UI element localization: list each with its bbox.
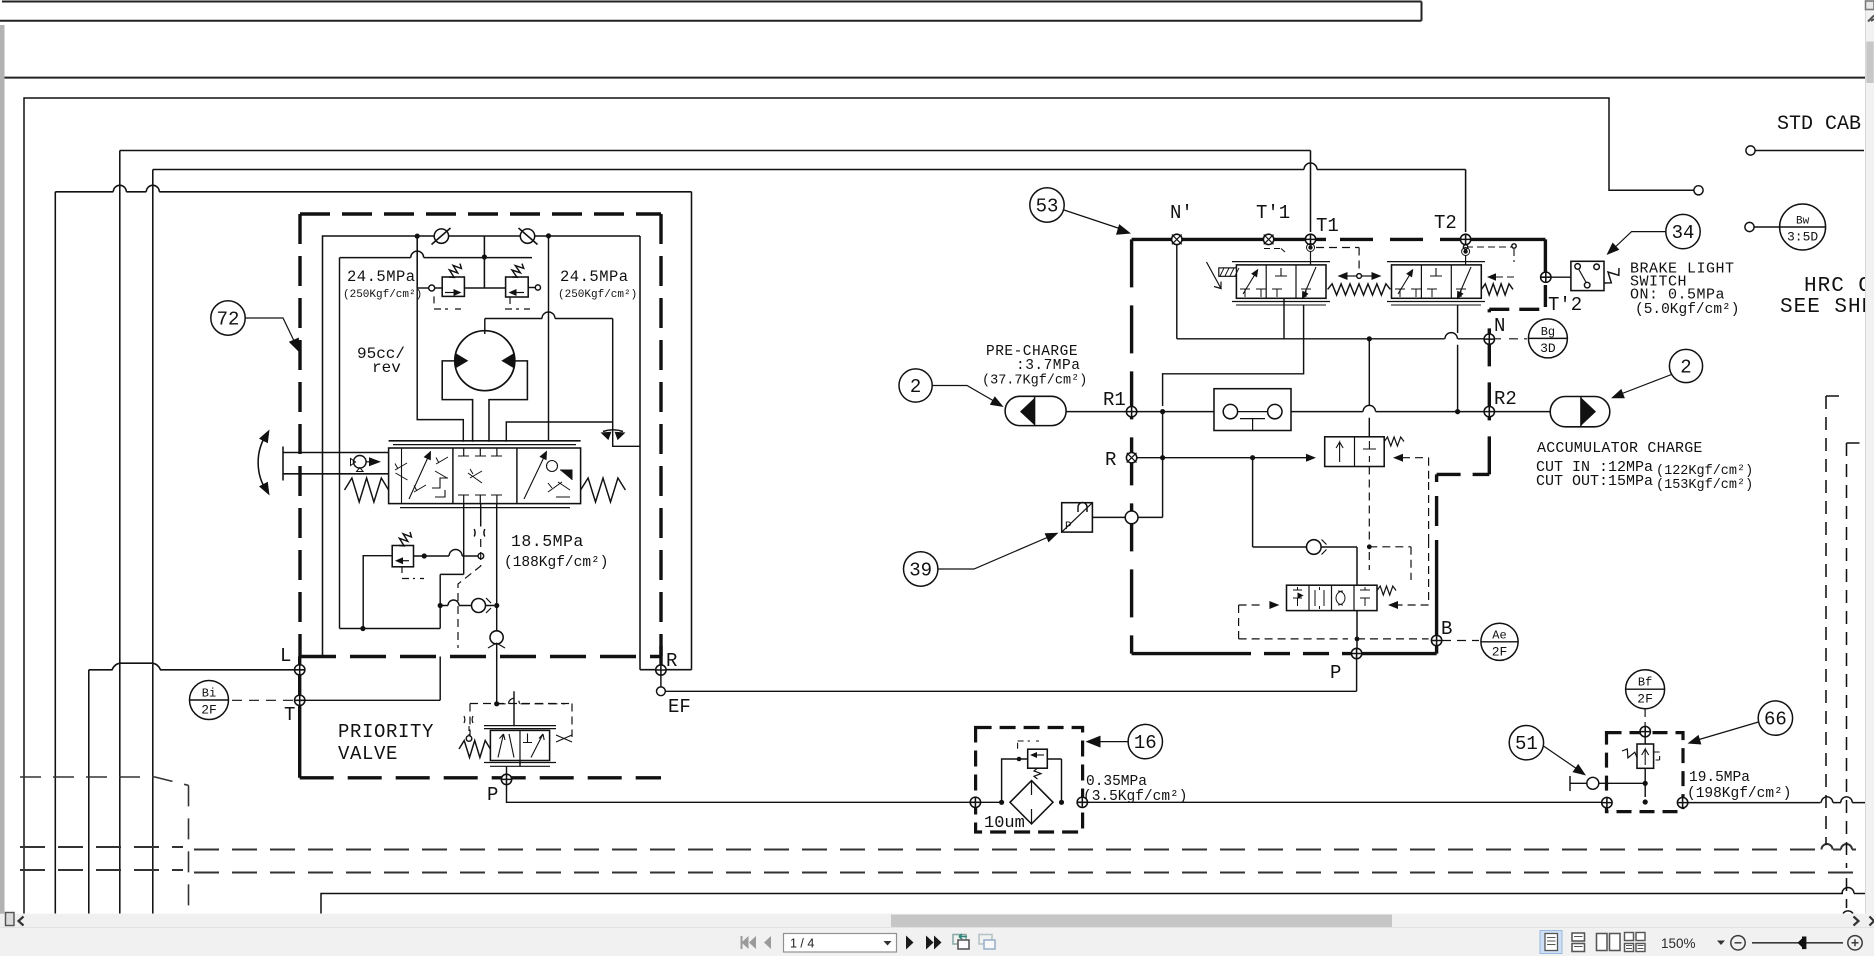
assembly 53 boundary left bold dashed x=1131.6 bbox=[1130, 239, 1133, 653]
wire envelope internal y=257.6 bbox=[340, 251, 533, 257]
wire N' drop bbox=[1176, 245, 1178, 339]
svg-text:R1: R1 bbox=[1103, 389, 1126, 411]
shuttle valve box bbox=[1214, 389, 1291, 431]
toolbar page box bbox=[784, 934, 897, 953]
svg-text::3.7MPa: :3.7MPa bbox=[1016, 358, 1080, 374]
wire T internal bbox=[305, 657, 440, 701]
assembly 53 boundary bottom left bold bbox=[1132, 652, 1225, 655]
toolbar zoom slider bbox=[1752, 942, 1843, 944]
steering valve internal passages bbox=[401, 448, 403, 504]
svg-text:T'2: T'2 bbox=[1548, 294, 1582, 316]
assembly 72 boundary bottom (bold dashed through P) bbox=[300, 776, 661, 779]
port R plug bbox=[1126, 453, 1136, 463]
svg-text:HRC O: HRC O bbox=[1804, 275, 1872, 298]
right vertical scrollbar bbox=[1866, 0, 1874, 914]
wire R1-R gauge link bbox=[1138, 412, 1163, 518]
filter bypass relief bbox=[1028, 749, 1048, 768]
port relief right bbox=[1677, 797, 1687, 807]
svg-text:72: 72 bbox=[217, 309, 240, 331]
priority valve body bbox=[490, 730, 549, 760]
V1 internals bbox=[1243, 271, 1257, 294]
svg-text:2F: 2F bbox=[1492, 644, 1508, 659]
svg-text:2F: 2F bbox=[1637, 692, 1653, 707]
toolbar layout cont-facing bbox=[1625, 933, 1646, 952]
open terminal circle top right bbox=[1694, 186, 1703, 195]
wire vertical bus x=152.8 bbox=[152, 170, 154, 914]
V2 pilot dashed right bbox=[1487, 273, 1496, 281]
svg-text:EF: EF bbox=[668, 696, 691, 718]
node top line junctions bbox=[415, 234, 420, 239]
balloon 53 bbox=[1030, 188, 1064, 222]
V2 internals bbox=[1398, 271, 1412, 294]
port T bbox=[295, 695, 305, 705]
balloon 66 bbox=[1758, 701, 1792, 735]
svg-text:66: 66 bbox=[1764, 709, 1787, 731]
svg-text:2: 2 bbox=[910, 376, 921, 398]
svg-text:Bi: Bi bbox=[202, 687, 216, 701]
accumulator ACC1 bbox=[1005, 396, 1066, 425]
svg-text:L: L bbox=[280, 645, 291, 667]
wire route to T2 with jump over T1 drop bbox=[153, 163, 1466, 232]
svg-text:24.5MPa: 24.5MPa bbox=[347, 268, 416, 286]
filter bypass wires bbox=[1002, 759, 1062, 802]
lower mod valve SV2 body bbox=[1287, 585, 1378, 610]
accumulator ACC2 bbox=[1550, 397, 1610, 427]
inner envelope rectangle bbox=[323, 236, 641, 656]
wire relief cross line bbox=[429, 285, 435, 291]
svg-text:ACCUMULATOR CHARGE: ACCUMULATOR CHARGE bbox=[1537, 440, 1703, 457]
svg-text:(250Kgf/cm²): (250Kgf/cm²) bbox=[343, 289, 422, 301]
port filter in bbox=[970, 797, 980, 807]
svg-text:18.5MPa: 18.5MPa bbox=[511, 532, 584, 551]
SV2 arrows bbox=[1269, 601, 1279, 609]
port L bbox=[295, 665, 305, 675]
svg-text:10um: 10um bbox=[984, 814, 1025, 833]
priority valve orifice left bbox=[464, 716, 473, 723]
port R1 bbox=[1126, 406, 1136, 416]
svg-text:STD CAB: STD CAB bbox=[1777, 113, 1861, 136]
wire L port feed (jumps over bus lines) bbox=[89, 663, 295, 670]
toolbar prev-view icon bbox=[953, 935, 969, 950]
balloon 2 right bbox=[1669, 349, 1702, 382]
assembly 72 boundary L-R port line (bold dashed) bbox=[300, 655, 661, 658]
svg-text:R: R bbox=[666, 650, 677, 672]
svg-text:(37.7Kgf/cm²): (37.7Kgf/cm²) bbox=[982, 374, 1087, 389]
wire EF line to brake P bbox=[665, 659, 1356, 692]
wire pump port right bbox=[506, 422, 612, 442]
svg-text:16: 16 bbox=[1134, 732, 1157, 754]
svg-text:(153Kgf/cm²): (153Kgf/cm²) bbox=[1656, 478, 1753, 493]
priority valve top rails bbox=[484, 725, 556, 727]
port relief top bbox=[1640, 726, 1650, 736]
wire vertical bus x=119.8 bbox=[119, 151, 121, 914]
port P bbox=[501, 774, 511, 784]
svg-text:Bw: Bw bbox=[1796, 216, 1810, 228]
balloon Bw/3:5D bbox=[1780, 204, 1826, 250]
svg-text:T: T bbox=[284, 704, 295, 726]
wire priority valve bottom to P bbox=[507, 761, 521, 775]
filter boundary box (bold dashed) bbox=[976, 728, 1083, 833]
balloon Bi/2F bbox=[190, 681, 229, 720]
svg-text:24.5MPa: 24.5MPa bbox=[560, 268, 629, 286]
dashed vertical x=1826 bbox=[1826, 396, 1845, 845]
sheet horizontal frame line y=77.6 bbox=[5, 77, 1866, 79]
plug T'1 drain dashes bbox=[1264, 249, 1285, 253]
pressure switch box bbox=[1062, 503, 1093, 532]
relief valve RV4 bbox=[1637, 744, 1654, 768]
wire main line right of relief bbox=[1688, 797, 1874, 803]
dashed pilot from orifice bbox=[458, 539, 481, 648]
RV4 wires bbox=[1644, 768, 1646, 797]
switch spring bbox=[1604, 268, 1619, 283]
svg-text:39: 39 bbox=[909, 560, 932, 582]
balloon Ae/2F bbox=[1481, 623, 1518, 660]
port relief left bbox=[1602, 797, 1612, 807]
svg-text:2F: 2F bbox=[201, 703, 217, 718]
toolbar nav first-page bbox=[741, 936, 757, 949]
brake valve V1 body bbox=[1236, 265, 1326, 298]
dashed pilot from T1 bbox=[1308, 245, 1312, 249]
balloon 2 left bbox=[899, 369, 932, 402]
wire pilot to spring side with jump bbox=[497, 698, 565, 704]
svg-text:3:5D: 3:5D bbox=[1787, 230, 1818, 245]
wire relief feed verticals bbox=[416, 236, 418, 288]
check valve top-right bbox=[520, 229, 534, 243]
svg-text:1 / 4: 1 / 4 bbox=[790, 937, 814, 951]
wire outer loop y=191.8 with jumps bbox=[55, 185, 691, 669]
brake valve V1 rails bbox=[1232, 261, 1330, 263]
priority valve spring bbox=[459, 741, 490, 758]
svg-text:B: B bbox=[1441, 618, 1452, 640]
left page-edge gray strip bbox=[0, 25, 5, 921]
svg-text:ON: 0.5MPa: ON: 0.5MPa bbox=[1630, 287, 1725, 304]
balloon Bg/3D bbox=[1528, 319, 1567, 358]
balloon 34 bbox=[1666, 214, 1700, 248]
long dashed line y=872 bbox=[20, 870, 1856, 873]
wire R-line drop x=1252.6 bbox=[1252, 458, 1254, 547]
brake light switch box bbox=[1571, 261, 1604, 290]
svg-text:53: 53 bbox=[1036, 196, 1059, 218]
svg-text:Bg: Bg bbox=[1541, 325, 1555, 339]
ball check valve CH2 bbox=[490, 631, 503, 644]
svg-text:P: P bbox=[1330, 662, 1341, 684]
toolbar layout continuous bbox=[1572, 933, 1585, 941]
svg-text:(198Kgf/cm²): (198Kgf/cm²) bbox=[1687, 786, 1791, 802]
SV1 arrows bbox=[1306, 454, 1316, 462]
dashed vertical x=188.5 bbox=[188, 785, 190, 913]
wire switch to boundary circle bbox=[1092, 516, 1125, 518]
svg-text:3D: 3D bbox=[1540, 341, 1556, 356]
wire valve drain down bbox=[496, 504, 498, 631]
toolbar zoom out bbox=[1731, 936, 1745, 950]
port filter out bbox=[1077, 797, 1087, 807]
wire T1 drop to valve bbox=[1310, 252, 1312, 265]
wire SV1 drain dashed down bbox=[1368, 467, 1370, 542]
brake valve V2 rails bbox=[1387, 261, 1485, 263]
wire T2 drop bbox=[1463, 249, 1467, 253]
wire RV3 right to pilot bbox=[414, 550, 478, 556]
assembly 53 boundary right bold dashed x=1436.6 bbox=[1435, 474, 1438, 570]
check valve CH3 bbox=[1253, 546, 1307, 548]
sheet bottom border line with jump bbox=[321, 888, 1865, 914]
long dashed line y=849 bbox=[20, 844, 1856, 850]
port P (brake) bbox=[1351, 648, 1361, 658]
wire N line y=338.8 bbox=[1177, 333, 1484, 339]
svg-text:150%: 150% bbox=[1661, 936, 1696, 951]
centering arrows + node bbox=[1338, 272, 1348, 280]
svg-text:34: 34 bbox=[1672, 222, 1695, 244]
port B bbox=[1431, 635, 1441, 645]
port T'1 bbox=[1263, 234, 1273, 244]
wire R2 to ACC2 bbox=[1495, 411, 1550, 413]
assembly 72 boundary (bold dashed box) bbox=[300, 214, 661, 657]
wire LS loop bbox=[340, 258, 464, 629]
wire R to EF bbox=[660, 675, 662, 687]
port T1 bbox=[1305, 234, 1315, 244]
svg-text:T'1: T'1 bbox=[1256, 202, 1290, 224]
relief valve RV2 bbox=[506, 277, 529, 297]
port N' bbox=[1172, 234, 1182, 244]
balloon 72 bbox=[211, 301, 245, 335]
centering arc arrows right bbox=[603, 430, 623, 432]
wire route to T1 bbox=[120, 151, 1311, 233]
svg-text:CUT OUT:15MPa: CUT OUT:15MPa bbox=[1536, 473, 1653, 490]
wire R1 line bbox=[1066, 411, 1126, 413]
steering valve spring left bbox=[345, 478, 389, 502]
charge valve SV1 body bbox=[1325, 437, 1385, 467]
svg-text:R: R bbox=[1105, 449, 1116, 471]
V2 right spring bbox=[1481, 284, 1513, 295]
assembly 72 boundary left solid segment through L,T bbox=[298, 657, 301, 778]
wire R port bold stub bbox=[659, 646, 662, 670]
priority valve pilot dashed box bbox=[470, 704, 572, 741]
steering valve body bbox=[389, 448, 581, 504]
sheet inner frame corner bbox=[24, 98, 1694, 914]
sheet top border line bbox=[0, 2, 1422, 21]
bottom horizontal scrollbar bbox=[0, 914, 1874, 928]
steering valve spring right bbox=[581, 478, 626, 502]
svg-text:T2: T2 bbox=[1434, 212, 1457, 234]
svg-text:N': N' bbox=[1170, 202, 1193, 224]
svg-text:N: N bbox=[1494, 315, 1505, 337]
port EF ring bbox=[657, 687, 666, 696]
svg-text:51: 51 bbox=[1515, 733, 1538, 755]
steering column shaft bbox=[283, 447, 389, 481]
svg-text:0.35MPa: 0.35MPa bbox=[1086, 774, 1147, 790]
wire V1 T-port drop bbox=[1283, 298, 1285, 339]
node y=257.6 junction bbox=[482, 254, 487, 259]
pump 95cc/rev circle bbox=[455, 331, 515, 391]
toolbar zoom in bbox=[1848, 936, 1862, 950]
wire main P line across bottom bbox=[981, 801, 1004, 803]
dashed vertical x=1846.5 bbox=[1847, 443, 1867, 908]
balloon 16 bbox=[1128, 724, 1162, 758]
svg-text:P: P bbox=[487, 784, 498, 806]
V1 prop solenoid bbox=[1219, 268, 1237, 276]
wire vertical bus x=55 bbox=[54, 192, 56, 914]
check valve top-left bbox=[434, 229, 448, 243]
pump flow triangles (inward) bbox=[455, 353, 468, 369]
SV2 spring right bbox=[1377, 586, 1396, 595]
svg-text:PRIORITY: PRIORITY bbox=[338, 721, 434, 743]
balloon 51 bbox=[1509, 726, 1543, 760]
steering lever arc arrow bbox=[258, 432, 268, 493]
relief 66 boundary (bold dashed) bbox=[1607, 733, 1684, 812]
wire T'2 to switch bbox=[1551, 276, 1571, 278]
toolbar nav prev-page bbox=[764, 936, 771, 949]
check valve CH1 bbox=[472, 599, 486, 613]
svg-text:VALVE: VALVE bbox=[338, 743, 398, 765]
SV1 pilot dashed right bbox=[1402, 458, 1429, 482]
port R bbox=[656, 665, 666, 675]
svg-text:SEE SHE: SEE SHE bbox=[1780, 296, 1874, 319]
svg-text:R2: R2 bbox=[1494, 388, 1517, 410]
RV4 spring W left bbox=[1622, 749, 1637, 758]
svg-text:(5.0Kgf/cm²): (5.0Kgf/cm²) bbox=[1635, 302, 1739, 318]
filter diamond bbox=[1010, 781, 1053, 824]
relief valve RV1 bbox=[442, 277, 464, 296]
pump mount outline bbox=[442, 361, 527, 442]
relief valve RV3 18.5MPa bbox=[392, 546, 413, 567]
svg-text:P: P bbox=[1065, 521, 1072, 533]
wire V2 bottom port down across R2 bbox=[1457, 305, 1459, 412]
wire manifold y=318.5 with jump bbox=[485, 312, 613, 334]
toolbar nav next-page bbox=[906, 936, 914, 950]
port T'2 bbox=[1541, 272, 1551, 282]
wire N node to SV1 bbox=[1368, 339, 1370, 437]
dashed line left y=777 bbox=[20, 777, 189, 785]
V1-V2 spring bbox=[1328, 284, 1391, 295]
brake valve V2 body bbox=[1392, 265, 1482, 298]
priority valve orifice right (bowtie) bbox=[556, 735, 572, 742]
wire EF drop into priority valve bbox=[513, 691, 515, 725]
toolbar bbox=[0, 927, 1874, 956]
stray jump arc near page bottom edge bbox=[1843, 911, 1853, 914]
wire vertical bus x=88.8 bbox=[88, 670, 90, 914]
wire P out down right bbox=[507, 785, 976, 803]
wire V1 right port to R1 bbox=[1163, 305, 1304, 406]
port T2 bbox=[1460, 234, 1470, 244]
svg-text:Bf: Bf bbox=[1638, 676, 1652, 690]
orifice symbol bbox=[474, 529, 485, 537]
SV2 dashed pilot loop bbox=[1368, 552, 1370, 570]
toolbar layout single (active) bbox=[1540, 931, 1562, 954]
balloon 39 bbox=[904, 552, 938, 586]
svg-text:(250Kgf/cm²): (250Kgf/cm²) bbox=[558, 289, 637, 301]
svg-text:19.5MPa: 19.5MPa bbox=[1689, 770, 1750, 786]
toolbar next-view icon (disabled) bbox=[979, 935, 995, 950]
svg-text:2: 2 bbox=[1680, 357, 1691, 379]
toolbar layout facing bbox=[1597, 934, 1608, 951]
terminal circle with wire bbox=[1746, 146, 1755, 155]
port R2 bbox=[1484, 406, 1494, 416]
wire shuttle to R2 with jump bbox=[1291, 405, 1484, 411]
SV1 spring right bbox=[1384, 437, 1404, 446]
svg-text:rev: rev bbox=[372, 359, 401, 377]
pilot pump symbol bbox=[354, 456, 367, 469]
steering valve top rails bbox=[389, 440, 581, 442]
wire RV3 left drain bbox=[363, 556, 392, 629]
port N bbox=[1484, 334, 1494, 344]
svg-text:Ae: Ae bbox=[1492, 628, 1506, 642]
toolbar nav last-page bbox=[926, 936, 934, 950]
svg-text:(122Kgf/cm²): (122Kgf/cm²) bbox=[1656, 464, 1753, 479]
wire pump case drain left bbox=[417, 288, 463, 442]
svg-text:(188Kgf/cm²): (188Kgf/cm²) bbox=[504, 555, 608, 571]
svg-text:T1: T1 bbox=[1316, 215, 1339, 237]
balloon Bf/2F bbox=[1626, 670, 1665, 709]
assembly 53 boundary bold top bus y=239.4 bbox=[1132, 238, 1326, 241]
